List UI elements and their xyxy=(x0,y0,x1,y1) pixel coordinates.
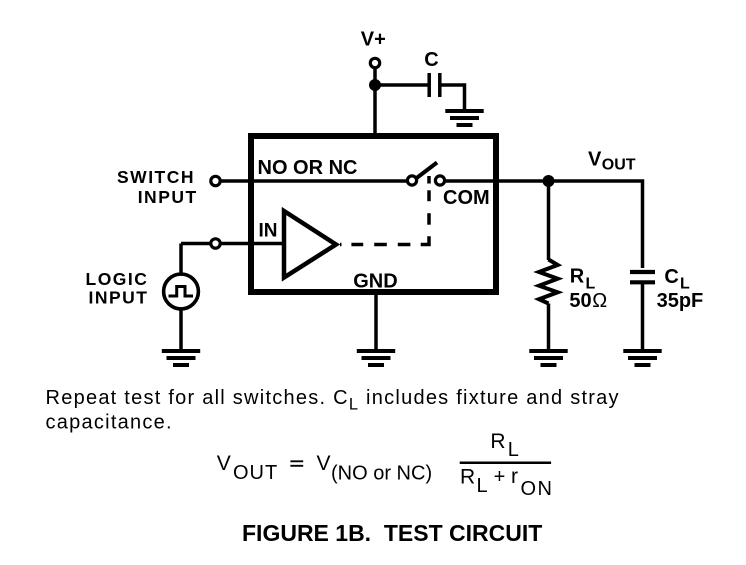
buffer amplifier (triangle) xyxy=(284,211,336,278)
pulse generator source xyxy=(164,274,199,309)
svg-text:capacitance.: capacitance. xyxy=(46,412,173,434)
svg-text:V: V xyxy=(217,452,231,475)
svg-text:COM: COM xyxy=(443,187,490,209)
svg-text:OUT: OUT xyxy=(602,157,636,174)
svg-text:GND: GND xyxy=(353,271,397,293)
svg-text:35pF: 35pF xyxy=(657,290,704,312)
dashed control line xyxy=(340,176,429,245)
svg-text:INPUT: INPUT xyxy=(89,288,149,308)
ground (GND pin) xyxy=(357,351,395,365)
wire VOUT node to CL branch corner xyxy=(549,181,643,268)
DUT box U1 xyxy=(251,136,496,292)
svg-text:r: r xyxy=(511,465,518,488)
svg-text:ON: ON xyxy=(521,478,554,500)
svg-text:R: R xyxy=(490,430,505,453)
ground (RL) xyxy=(529,351,567,365)
svg-text:V+: V+ xyxy=(361,28,386,50)
formula fraction bar xyxy=(460,462,551,465)
svg-text:FIGURE 1B. TEST CIRCUIT: FIGURE 1B. TEST CIRCUIT xyxy=(242,520,542,546)
svg-text:C: C xyxy=(424,49,438,71)
svg-text:R: R xyxy=(570,266,585,288)
terminal V+ xyxy=(370,58,379,67)
svg-text:V: V xyxy=(588,149,602,171)
terminal switch input xyxy=(211,176,220,185)
terminal logic input xyxy=(211,239,220,248)
wire capacitor CL to ground xyxy=(641,284,645,351)
svg-text:50: 50 xyxy=(569,290,591,312)
wire logic input corner down to pulse source xyxy=(179,244,183,277)
wire V+ terminal to junction xyxy=(373,63,377,85)
wire VOUT node down to resistor RL xyxy=(547,181,551,260)
ground (CL) xyxy=(623,351,661,365)
svg-text:SWITCH: SWITCH xyxy=(117,167,195,187)
svg-text:V: V xyxy=(317,452,331,475)
wire capacitor C to ground xyxy=(442,85,465,111)
wire V+ node to DUT box top xyxy=(373,85,377,136)
svg-text:LOGIC: LOGIC xyxy=(86,269,149,289)
ground (logic input) xyxy=(162,351,200,365)
switch left contact xyxy=(407,176,416,185)
capacitor C xyxy=(427,73,431,97)
svg-text:R: R xyxy=(460,465,475,488)
resistor RL xyxy=(539,260,558,304)
wire resistor RL to ground xyxy=(547,304,551,351)
switch right contact (COM) xyxy=(435,176,444,185)
wire V+ node to capacitor C xyxy=(375,83,428,87)
wire switch input to switch contact xyxy=(216,179,409,183)
capacitor CL xyxy=(630,270,655,274)
svg-text:(NO or NC): (NO or NC) xyxy=(331,462,432,484)
svg-text:OUT: OUT xyxy=(233,462,278,484)
svg-text:Repeat test for all switches.: Repeat test for all switches. CL include… xyxy=(46,387,620,414)
switch arm xyxy=(414,163,437,181)
junction dot V+ node xyxy=(369,79,381,91)
wire pulse generator to ground xyxy=(179,308,183,351)
ground (decoupling cap) xyxy=(445,111,483,125)
svg-text:L: L xyxy=(477,475,488,497)
wire logic input to buffer xyxy=(181,242,284,246)
svg-text:IN: IN xyxy=(259,221,278,242)
node VOUT junction dot xyxy=(543,175,555,187)
svg-text:Ω: Ω xyxy=(592,290,607,312)
svg-text:INPUT: INPUT xyxy=(138,187,198,207)
wire COM to VOUT node xyxy=(446,179,549,183)
svg-text:+: + xyxy=(494,466,506,488)
svg-text:L: L xyxy=(508,439,519,461)
svg-text:C: C xyxy=(664,266,678,288)
wire GND pin to ground xyxy=(374,292,378,351)
svg-text:NO OR NC: NO OR NC xyxy=(258,157,358,179)
